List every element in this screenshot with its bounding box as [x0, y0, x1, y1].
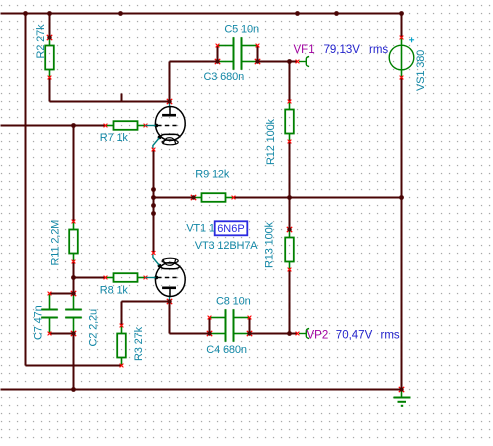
- label VP2 rms: [381, 330, 400, 342]
- svg-text:C3 680n: C3 680n: [204, 71, 245, 83]
- voltage source VS1: [389, 36, 414, 80]
- junction input R11: [71, 123, 76, 128]
- junction VS1 column: [399, 195, 404, 200]
- svg-text:VS1 380: VS1 380: [415, 50, 427, 91]
- wire plate row VT1: [50, 101, 170, 103]
- wire VT1 plate riser: [169, 62, 171, 102]
- capacitor C5: [216, 37, 260, 54]
- wire left B+ drop column: [25, 14, 27, 366]
- label C4 680n: [206, 344, 247, 356]
- capacitor C4: [207, 325, 252, 342]
- value box 6N6P: [215, 221, 248, 235]
- wire VT3 plate drop: [169, 302, 171, 334]
- wire ground bottom rail: [1, 389, 402, 391]
- resistor R3: [117, 324, 126, 368]
- svg-text:R3 27k: R3 27k: [133, 326, 145, 361]
- wire VT3 plate to R3: [121, 302, 123, 326]
- resistor R7: [104, 121, 148, 130]
- svg-text:R13 100k: R13 100k: [263, 221, 275, 268]
- node VP2 probe: [296, 329, 310, 339]
- label R3 27k: [133, 326, 145, 361]
- capacitor C8: [208, 309, 252, 326]
- label VT1 1: [186, 222, 215, 234]
- resistor R11: [69, 220, 78, 264]
- wire VS1 column top: [401, 14, 403, 38]
- junction node VF1: [287, 59, 292, 64]
- svg-text:79,13V: 79,13V: [324, 44, 361, 56]
- wire VT3 plate row: [122, 301, 170, 303]
- wire node to VS1 column: [290, 197, 402, 199]
- junction top rail x297: [295, 11, 300, 16]
- junction bottom rail x73: [71, 387, 76, 392]
- svg-text:R7 1k: R7 1k: [100, 132, 129, 144]
- wire C8 right tie: [249, 318, 251, 334]
- svg-text:C2 2,2u: C2 2,2u: [87, 309, 99, 347]
- wire R2 top lead: [49, 14, 51, 38]
- svg-text:C8 10n: C8 10n: [216, 295, 251, 307]
- node VF1 probe: [296, 57, 310, 67]
- svg-text:R9 12k: R9 12k: [195, 169, 230, 181]
- wire R11 bottom lead: [73, 262, 75, 278]
- label R2 27k: [35, 24, 47, 59]
- svg-text:rms: rms: [369, 44, 388, 56]
- label VF1 rms: [369, 44, 388, 56]
- wire coupling row right: [258, 61, 290, 63]
- svg-text:R2 27k: R2 27k: [35, 24, 47, 59]
- svg-text:VT1 1: VT1 1: [186, 222, 215, 234]
- label VS1 380: [415, 50, 427, 91]
- label R12 100k: [265, 118, 277, 165]
- wire stub above plate row: [121, 94, 123, 103]
- wire VP2 lead: [290, 333, 299, 335]
- wire R12 to R13: [289, 142, 291, 230]
- triode VT1: [146, 99, 186, 152]
- svg-text:R11 2,2M: R11 2,2M: [50, 220, 62, 266]
- wire VS1 column to ground: [401, 198, 403, 390]
- label C3 680n: [204, 71, 245, 83]
- junction R8 node: [71, 275, 76, 280]
- junction top rail x49: [47, 11, 52, 16]
- wire C8C4 row left: [170, 333, 210, 335]
- junction cathode 189: [151, 187, 156, 192]
- junction node VP2: [287, 331, 292, 336]
- ground: [394, 387, 411, 406]
- resistor R9: [191, 193, 236, 202]
- wire R2 bottom to plate row: [49, 78, 51, 102]
- svg-text:R12 100k: R12 100k: [265, 118, 277, 165]
- wire R11 top lead: [73, 126, 75, 222]
- junction top rail x336: [334, 11, 339, 16]
- resistor R12: [285, 100, 294, 144]
- wire VS1 column to cathode bus: [401, 78, 403, 198]
- svg-text:6N6P: 6N6P: [217, 223, 245, 235]
- wire C7C2 bottom tie: [50, 333, 74, 335]
- svg-text:rms: rms: [381, 330, 400, 342]
- label C5 10n: [224, 24, 259, 36]
- label C8 10n: [216, 295, 251, 307]
- capacitor C2: [65, 291, 82, 336]
- svg-text:70,47V: 70,47V: [336, 330, 373, 342]
- wire R12 top lead: [289, 62, 291, 102]
- wire C7C2 top drop: [73, 278, 75, 294]
- triode VT3: [146, 251, 186, 304]
- wire cathode column: [153, 150, 155, 253]
- label R13 100k: [263, 221, 275, 268]
- label VP2: [307, 330, 329, 342]
- svg-text:VT3 12BH7A: VT3 12BH7A: [195, 240, 259, 252]
- wire R13 bottom lead: [289, 270, 291, 334]
- svg-text:C5 10n: C5 10n: [224, 24, 259, 36]
- wire R9 to node: [234, 197, 290, 199]
- junction top rail x120: [118, 11, 123, 16]
- wire C7C2 to ground rail: [73, 334, 75, 390]
- wire cathode to R9: [154, 197, 194, 199]
- label VP2 value 70,47V: [336, 330, 373, 342]
- junction top rail corner: [399, 11, 404, 16]
- svg-text:VF1: VF1: [294, 44, 315, 56]
- label R7 1k: [100, 132, 129, 144]
- wire VF1 lead: [290, 61, 299, 63]
- svg-text:C7 47n: C7 47n: [33, 305, 45, 340]
- junction top rail x25: [23, 11, 28, 16]
- wire B+ to R3 bottom: [26, 365, 122, 367]
- svg-text:R8 1k: R8 1k: [100, 285, 129, 297]
- resistor R8: [104, 273, 148, 282]
- wire input row: [1, 125, 106, 127]
- label R9 12k: [195, 169, 230, 181]
- wire C8C4 row right: [250, 333, 290, 335]
- svg-text:VP2: VP2: [307, 330, 329, 342]
- junction R9 node: [287, 195, 292, 200]
- label C7 47n: [33, 305, 45, 340]
- wire R8 row: [74, 277, 106, 279]
- label VF1: [294, 44, 315, 56]
- wire C5 left tie: [217, 46, 219, 62]
- svg-text:C4 680n: C4 680n: [206, 344, 247, 356]
- label VT3 12BH7A: [195, 240, 259, 252]
- resistor R13: [285, 227, 294, 272]
- junction cathode 197: [151, 195, 156, 200]
- wire coupling row left: [170, 61, 218, 63]
- wire B+ top rail: [1, 13, 402, 15]
- wire C8 left tie: [209, 318, 211, 334]
- wire C5 right tie: [257, 46, 259, 62]
- capacitor C7: [41, 292, 58, 336]
- capacitor C3: [215, 53, 260, 70]
- label C2 2,2u: [87, 309, 99, 347]
- wire C7C2 top tie: [50, 293, 74, 295]
- label VF1 value 79,13V: [324, 44, 361, 56]
- label R11 2,2M: [50, 220, 62, 266]
- junction cathode 213: [151, 211, 156, 216]
- junction cathode 205: [151, 203, 156, 208]
- resistor R2: [45, 35, 54, 80]
- label R8 1k: [100, 285, 129, 297]
